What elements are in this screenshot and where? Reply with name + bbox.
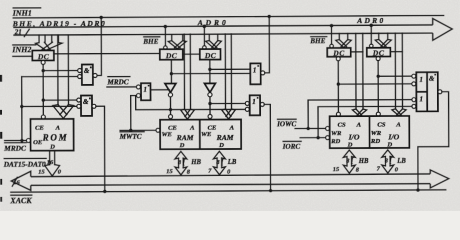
svg-text:IORC: IORC [282,143,301,151]
svg-text:WE: WE [201,131,212,138]
svg-text:A: A [189,125,195,132]
svg-text:RAM: RAM [216,133,234,142]
svg-text:DC: DC [37,52,50,61]
svg-text:D: D [49,144,55,151]
svg-text:MRDC: MRDC [106,78,128,86]
svg-text:XACK: XACK [9,196,32,205]
svg-text:MRDC: MRDC [3,144,26,153]
svg-text:DC: DC [165,51,178,60]
svg-text:BHE: BHE [142,38,158,46]
svg-text:1: 1 [419,76,423,84]
svg-text:DC: DC [204,51,217,60]
svg-text:D: D [179,142,185,149]
svg-text:HB: HB [190,159,201,166]
svg-text:1: 1 [419,95,423,103]
svg-text:&: & [429,75,435,83]
svg-text:CS: CS [338,122,346,129]
svg-text:D: D [386,142,392,149]
svg-text:21: 21 [14,28,22,36]
svg-text:15: 15 [166,168,173,175]
svg-text:LB: LB [227,159,237,166]
svg-text:HB: HB [358,158,369,165]
svg-text:1: 1 [253,66,257,74]
svg-text:I/O: I/O [348,132,360,141]
svg-text:ROM: ROM [42,133,68,143]
svg-text:RD: RD [330,138,340,145]
svg-text:INH1: INH1 [12,9,32,18]
svg-text:&: & [83,98,89,106]
svg-text:INH2: INH2 [11,45,31,54]
svg-text:I/O: I/O [387,132,399,141]
svg-text:A: A [55,125,61,132]
svg-text:CE: CE [35,125,44,132]
svg-text:A: A [229,124,235,131]
svg-text:A: A [356,122,362,129]
svg-text:1: 1 [252,98,256,106]
svg-text:WR: WR [331,130,342,137]
svg-text:DAT15-DAT0: DAT15-DAT0 [3,160,46,169]
svg-text:RD: RD [370,138,380,145]
svg-text:OE: OE [33,139,43,146]
svg-text:1: 1 [143,86,147,94]
svg-text:&: & [84,67,90,75]
svg-text:15: 15 [333,166,340,173]
svg-text:16: 16 [47,159,54,166]
svg-text:D: D [347,142,353,149]
svg-text:ADR0: ADR0 [356,16,383,25]
svg-text:LB: LB [396,158,406,165]
svg-text:CS: CS [377,121,385,128]
svg-text:15: 15 [38,169,45,176]
svg-text:A: A [395,121,401,128]
svg-text:WE: WE [162,131,173,138]
svg-text:RAM: RAM [176,133,194,142]
svg-text:IOWC: IOWC [276,120,296,128]
svg-text:D: D [218,142,224,149]
svg-text:MWTC: MWTC [119,133,142,141]
svg-text:BHE: BHE [309,37,325,45]
svg-text:WR: WR [371,130,382,137]
